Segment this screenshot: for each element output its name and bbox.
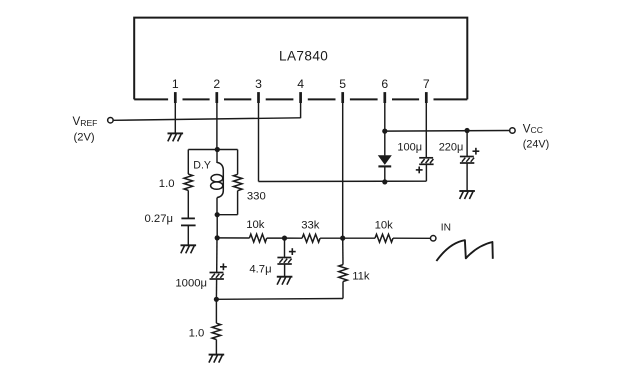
svg-text:220μ: 220μ xyxy=(439,142,464,154)
wire R6 top stub xyxy=(342,238,344,265)
svg-text:5: 5 xyxy=(339,77,346,91)
svg-text:4: 4 xyxy=(297,77,304,91)
wire R4 to pin5 node xyxy=(320,237,343,239)
sawtooth input waveform xyxy=(436,240,492,261)
svg-text:LA7840: LA7840 xyxy=(279,48,328,63)
resistor R6 11k xyxy=(339,265,348,282)
svg-text:(24V): (24V) xyxy=(523,138,549,150)
terminal VCC (open circle) xyxy=(510,128,516,134)
capacitor C1 100u (pin7) xyxy=(419,157,433,159)
wire R7 to ground xyxy=(215,340,217,355)
terminal VREF (open circle) xyxy=(108,117,114,123)
svg-text:3: 3 xyxy=(255,77,262,91)
svg-text:VREF: VREF xyxy=(73,115,98,128)
terminal IN (open circle) xyxy=(430,236,436,242)
wire node to C4 xyxy=(284,238,286,257)
wire pin2 down to yoke rail xyxy=(216,103,218,150)
wire R5 to IN terminal xyxy=(393,237,430,239)
svg-text:11k: 11k xyxy=(352,271,370,283)
wire R2 bottom to yoke node xyxy=(237,191,239,215)
node R3/R4/C4 junction xyxy=(282,236,287,241)
capacitor C5 1000u xyxy=(210,272,224,274)
plus sign C2 xyxy=(473,150,480,152)
wire rail left drop xyxy=(187,150,189,175)
wire 11k bottom drop xyxy=(342,282,344,299)
wire diode cathode down xyxy=(384,166,386,182)
wire yoke node down xyxy=(216,215,218,238)
svg-text:10k: 10k xyxy=(375,219,394,231)
wire C5 node to R7 xyxy=(215,299,217,323)
svg-text:VCC: VCC xyxy=(523,123,543,136)
diode D1 (anode pin6 side) xyxy=(378,155,392,165)
node 220u/VCC junction xyxy=(465,128,470,133)
wire pin7 down to pump-up cap xyxy=(425,103,427,158)
inductor DY deflection yoke xyxy=(216,150,218,164)
wire R1 to C3 xyxy=(187,190,189,218)
svg-text:100μ: 100μ xyxy=(397,142,422,154)
resistor R4 33k xyxy=(302,234,320,242)
wire node to R5 xyxy=(343,237,375,239)
node pin6/VCC junction xyxy=(382,129,387,134)
svg-text:IN: IN xyxy=(441,223,451,234)
wire node to R3 xyxy=(217,237,249,239)
ground under R7 xyxy=(209,354,225,356)
plus sign C5 xyxy=(220,266,227,268)
IC U1 bottom edge (gapped at pins) xyxy=(134,98,168,100)
ground under C3 xyxy=(181,244,197,246)
ground under C4 xyxy=(277,276,293,278)
svg-text:D.Y: D.Y xyxy=(193,160,211,172)
ground under C2 xyxy=(459,190,475,192)
svg-text:1.0: 1.0 xyxy=(159,178,175,190)
resistor R2 330 xyxy=(233,174,242,190)
wire C2 to ground xyxy=(466,163,468,191)
capacitor C2 220u xyxy=(460,156,474,158)
pin 7 lead tick xyxy=(425,92,428,103)
wire pin6 to VCC rail xyxy=(384,103,386,156)
node pin2/yoke rail junction xyxy=(215,147,220,152)
wire feedback return rail xyxy=(216,298,343,301)
svg-text:1000μ: 1000μ xyxy=(175,278,207,290)
svg-text:33k: 33k xyxy=(301,219,320,231)
svg-text:2: 2 xyxy=(213,77,220,91)
plus sign C1 xyxy=(416,169,423,171)
wire rail right drop xyxy=(237,150,239,175)
wire C4 to ground xyxy=(284,264,286,277)
wire VREF to pin4 xyxy=(114,118,301,121)
wire R3 to node xyxy=(267,237,285,239)
wire pin1 to ground xyxy=(174,103,176,134)
svg-text:1: 1 xyxy=(172,77,179,91)
svg-text:0.27μ: 0.27μ xyxy=(145,213,174,225)
svg-text:1.0: 1.0 xyxy=(189,328,205,340)
wire pin5 down to divider node xyxy=(342,103,344,239)
wire node to R4 xyxy=(285,237,303,239)
wire yoke top rail xyxy=(188,149,237,151)
pin 5 lead tick xyxy=(341,92,344,103)
capacitor C3 0.27u plates xyxy=(181,217,195,219)
pin 4 lead tick xyxy=(299,92,302,103)
pin 6 lead tick xyxy=(383,92,386,103)
svg-text:4.7μ: 4.7μ xyxy=(249,264,271,276)
resistor R3 10k xyxy=(249,234,266,242)
ground under pin 1 xyxy=(168,132,184,134)
wire pin4 stub xyxy=(300,103,302,119)
wire VCC rail xyxy=(385,130,510,133)
plus sign C4 xyxy=(289,251,296,253)
svg-text:330: 330 xyxy=(247,191,266,203)
wire C3 to ground xyxy=(187,225,189,245)
node feedback rail junction xyxy=(215,235,220,240)
svg-text:7: 7 xyxy=(423,77,430,91)
node yoke bottom junction xyxy=(215,212,220,217)
node C5/feedback return junction xyxy=(214,297,219,302)
resistor R5 10k (input) xyxy=(375,234,393,242)
svg-text:(2V): (2V) xyxy=(74,131,95,143)
resistor R1 1.0 (damping) xyxy=(184,174,193,190)
svg-text:10k: 10k xyxy=(246,219,265,231)
resistor R7 1.0 (bottom) xyxy=(212,323,221,339)
svg-text:6: 6 xyxy=(381,77,388,91)
wire C5 down xyxy=(215,279,217,299)
IC U1 LA7840 package outline (top/left/right edges) xyxy=(134,18,467,100)
node diode/pin3 rail junction xyxy=(382,179,387,184)
pin 1 lead tick xyxy=(174,92,177,103)
node pin5/divider junction xyxy=(340,236,345,241)
wire VCC to C2 xyxy=(466,131,468,157)
pin 2 lead tick xyxy=(215,92,218,103)
wire node to C5 xyxy=(216,238,218,273)
wire pin3 down xyxy=(258,103,260,182)
capacitor C4 4.7u xyxy=(277,257,291,259)
pin 3 lead tick xyxy=(257,92,260,103)
wire C1 bottom to pin3 rail xyxy=(425,164,427,181)
